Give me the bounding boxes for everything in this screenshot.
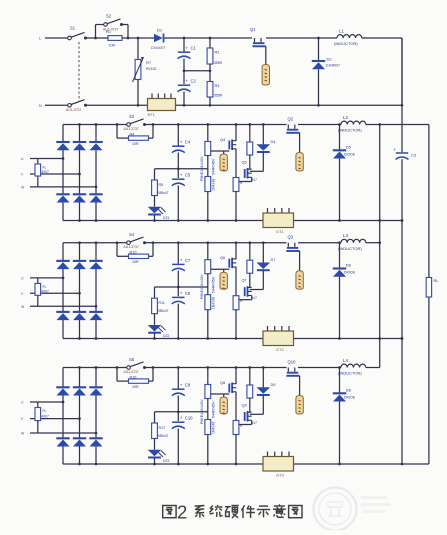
node phase U bbox=[21, 157, 64, 161]
transistor Q9 bbox=[239, 404, 257, 426]
svg-text:Q5: Q5 bbox=[242, 161, 247, 165]
wire diode link bbox=[250, 289, 263, 291]
fuse FQ8 bbox=[220, 394, 227, 414]
capacitor C7 bbox=[172, 241, 191, 296]
svg-text:D8: D8 bbox=[346, 388, 352, 393]
resistor R3 bbox=[207, 82, 223, 107]
wire bridge rail joins bbox=[78, 241, 97, 340]
inductor L4 bbox=[338, 358, 366, 376]
transistor Q10 bbox=[286, 360, 299, 396]
wire bottom rail row1 bbox=[176, 104, 403, 106]
diode D7 mid bbox=[257, 241, 276, 289]
svg-text:P6KE440/440V: P6KE440/440V bbox=[200, 156, 204, 181]
resistor under Q4 bbox=[233, 178, 243, 222]
node L input terminal bbox=[39, 37, 69, 41]
svg-text:FL: FL bbox=[43, 409, 47, 413]
fuse FQ6 bbox=[220, 269, 227, 289]
svg-text:+: + bbox=[186, 78, 189, 83]
svg-text:L2: L2 bbox=[343, 115, 348, 120]
svg-text:GT2: GT2 bbox=[276, 347, 285, 352]
svg-text:10R: 10R bbox=[132, 142, 139, 146]
svg-text:BT1: BT1 bbox=[148, 112, 156, 117]
svg-text:D1N4007: D1N4007 bbox=[151, 46, 165, 50]
diode bridge bottom 1 bbox=[56, 159, 69, 221]
svg-text:RL: RL bbox=[434, 279, 439, 283]
svg-text:S4: S4 bbox=[129, 232, 135, 237]
switch S3 bypass bbox=[116, 114, 155, 131]
svg-text:C7: C7 bbox=[185, 258, 191, 263]
svg-text:10R: 10R bbox=[132, 260, 139, 264]
svg-text:AU1-3737: AU1-3737 bbox=[124, 370, 139, 374]
node phase W bbox=[21, 305, 97, 309]
resistor gate Q5 bbox=[247, 123, 253, 169]
diode DZ2 zener bbox=[148, 325, 170, 340]
switch S2 bypass branch bbox=[96, 14, 129, 39]
capacitor C5 bbox=[172, 167, 191, 221]
resistor gate Q9 bbox=[247, 366, 253, 412]
resistor gate Q7 bbox=[247, 241, 253, 287]
svg-text:2: 2 bbox=[177, 502, 187, 523]
svg-text:D4: D4 bbox=[271, 140, 276, 144]
svg-text:(INDUCTOR): (INDUCTOR) bbox=[338, 246, 362, 251]
svg-text:+: + bbox=[180, 172, 183, 177]
svg-text:555R: 555R bbox=[214, 94, 223, 98]
svg-text:4007: 4007 bbox=[42, 289, 50, 293]
svg-text:C10: C10 bbox=[185, 416, 193, 421]
diode bridge top 3 bbox=[89, 125, 102, 187]
diode D4 mid bbox=[257, 123, 276, 171]
node phase W bbox=[21, 185, 97, 189]
svg-text:4007: 4007 bbox=[42, 415, 50, 419]
svg-text:S3: S3 bbox=[129, 114, 135, 119]
svg-text:555x47: 555x47 bbox=[158, 434, 169, 438]
svg-text:DZ2: DZ2 bbox=[163, 334, 170, 338]
svg-text:Q7: Q7 bbox=[242, 279, 247, 283]
svg-text:555x47: 555x47 bbox=[158, 191, 169, 195]
svg-text:4007: 4007 bbox=[42, 170, 50, 174]
module BT1 bbox=[148, 94, 176, 118]
capacitor C8 bbox=[172, 286, 191, 340]
capacitor C10 bbox=[172, 410, 193, 465]
wire bottom rail S4 bbox=[63, 337, 403, 340]
svg-text:C1: C1 bbox=[191, 46, 197, 51]
diode bridge top 2 bbox=[73, 243, 86, 294]
switch S1 bbox=[68, 26, 96, 40]
diode bridge bottom 3 bbox=[89, 187, 102, 221]
svg-text:C9: C9 bbox=[185, 383, 191, 388]
svg-text:R2: R2 bbox=[215, 51, 220, 55]
fuse FQ10 bbox=[296, 396, 303, 415]
node phase U bbox=[21, 401, 64, 405]
module GT2 bbox=[263, 326, 294, 352]
svg-text:(INDUCTOR): (INDUCTOR) bbox=[334, 41, 358, 46]
svg-text:S5: S5 bbox=[129, 357, 135, 362]
node phase V bbox=[21, 173, 81, 177]
capacitor C4 bbox=[172, 123, 191, 178]
svg-text:P6KE440/440V: P6KE440/440V bbox=[200, 399, 204, 424]
svg-text:R7: R7 bbox=[146, 60, 152, 65]
wire mid links bbox=[155, 168, 208, 170]
text caption 图2 系统硬件示意图 bbox=[163, 502, 302, 523]
diode bridge bottom 2 bbox=[73, 293, 86, 338]
fuse F1 bbox=[262, 65, 269, 86]
svg-text:R17: R17 bbox=[159, 426, 166, 430]
resistor RL load bbox=[426, 278, 438, 298]
svg-text:DZ3: DZ3 bbox=[163, 459, 170, 463]
svg-text:+: + bbox=[186, 45, 189, 50]
wire dashed gang link S1-S5 bbox=[78, 42, 80, 101]
wire rail row3 right bbox=[366, 241, 381, 244]
svg-text:DIODE: DIODE bbox=[344, 271, 356, 275]
svg-text:AU1-3737: AU1-3737 bbox=[124, 245, 139, 249]
svg-text:Q10: Q10 bbox=[288, 360, 297, 365]
transistor Q2 bbox=[286, 117, 299, 153]
svg-text:Q9: Q9 bbox=[242, 404, 247, 408]
inductor FL phase link bbox=[35, 402, 49, 433]
svg-text:544R/45V: 544R/45V bbox=[212, 276, 216, 293]
resistor R2 bbox=[207, 37, 223, 82]
diode DZ3 zener bbox=[148, 450, 170, 466]
capacitor C3 bbox=[394, 147, 417, 464]
svg-text:S1: S1 bbox=[70, 26, 76, 31]
svg-text:10R: 10R bbox=[109, 44, 116, 48]
svg-text:S2: S2 bbox=[106, 14, 112, 19]
wire rail row4 right corner bbox=[366, 339, 380, 368]
diode bridge top 2 bbox=[73, 368, 86, 419]
svg-text:Q8: Q8 bbox=[220, 381, 225, 385]
diode bridge bottom 2 bbox=[73, 174, 86, 221]
inductor FL phase link bbox=[35, 278, 49, 306]
svg-text:D1: D1 bbox=[157, 28, 163, 33]
svg-text:+: + bbox=[180, 258, 183, 263]
transistor Q1 bbox=[250, 27, 266, 65]
wire mid links bbox=[155, 411, 208, 413]
wire cap mid link bbox=[184, 69, 211, 72]
diode bridge top 1 bbox=[56, 243, 69, 278]
transistor Q7 bbox=[239, 279, 257, 301]
wire diode link bbox=[250, 170, 263, 172]
diode D9 mid bbox=[257, 366, 276, 414]
diode D6 freewheel bbox=[333, 241, 356, 340]
svg-text:Q1: Q1 bbox=[250, 27, 256, 32]
capacitor C2 bbox=[178, 69, 197, 106]
resistor R4 bbox=[117, 125, 153, 146]
svg-text:AU1-3737: AU1-3737 bbox=[124, 127, 139, 131]
wire top rail S3 bbox=[63, 124, 341, 126]
svg-text:555x47: 555x47 bbox=[158, 309, 169, 313]
transistor Q6 bbox=[211, 241, 238, 295]
node phase U bbox=[21, 276, 64, 280]
wire bottom rail S5 bbox=[63, 463, 403, 466]
wire top rail row1 bbox=[138, 37, 402, 39]
svg-text:Q6: Q6 bbox=[220, 256, 225, 260]
svg-text:FL: FL bbox=[43, 166, 47, 170]
resistor R11 snubber bbox=[152, 287, 169, 325]
svg-text:GT1: GT1 bbox=[276, 229, 285, 234]
wire bus B x402 upper bbox=[401, 38, 404, 152]
wire bridge rail joins bbox=[78, 123, 97, 222]
svg-text:L: L bbox=[39, 37, 41, 41]
svg-text:D9: D9 bbox=[271, 383, 276, 387]
resistor R17 snubber bbox=[152, 412, 169, 450]
diode D1 bbox=[151, 28, 165, 51]
svg-text:RV120: RV120 bbox=[146, 67, 156, 71]
diode DZ1 zener bbox=[148, 207, 170, 222]
wire bottom rail row4 right bbox=[402, 463, 429, 465]
svg-text:R1: R1 bbox=[106, 29, 112, 34]
svg-text:10R: 10R bbox=[132, 385, 139, 389]
resistor R14 divider bbox=[205, 241, 216, 294]
fuse FQ2 bbox=[296, 153, 303, 172]
diode bridge bottom 3 bbox=[89, 433, 102, 464]
diode bridge top 2 bbox=[73, 125, 86, 175]
svg-text:C3: C3 bbox=[411, 153, 417, 158]
diode bridge top 3 bbox=[89, 243, 102, 307]
diode bridge bottom 1 bbox=[56, 278, 69, 339]
svg-text:D1N4007: D1N4007 bbox=[326, 64, 340, 68]
svg-text:C4: C4 bbox=[185, 140, 191, 145]
svg-text:P6KE440/440V: P6KE440/440V bbox=[200, 274, 204, 299]
capacitor C9 bbox=[172, 366, 191, 421]
svg-text:C8: C8 bbox=[185, 291, 191, 296]
svg-text:+: + bbox=[180, 291, 183, 296]
text vertical value bbox=[200, 399, 204, 424]
varistor R7 bbox=[133, 37, 157, 107]
transistor Q5 bbox=[239, 161, 257, 183]
inductor FL phase link bbox=[35, 159, 49, 187]
svg-text:D6: D6 bbox=[346, 263, 352, 268]
resistor R20 divider bbox=[205, 366, 216, 419]
svg-text:(INDUCTOR): (INDUCTOR) bbox=[338, 371, 362, 376]
diode D2 bbox=[312, 37, 340, 107]
svg-text:+: + bbox=[180, 382, 183, 387]
svg-text:C5: C5 bbox=[185, 173, 191, 178]
svg-text:x17: x17 bbox=[252, 178, 257, 182]
svg-text:L3: L3 bbox=[343, 233, 348, 238]
resistor under Q8 bbox=[233, 421, 243, 466]
svg-text:R3: R3 bbox=[215, 84, 220, 88]
fuse FQ3 bbox=[296, 271, 303, 290]
resistor R8 divider bbox=[205, 123, 216, 176]
svg-text:R11: R11 bbox=[159, 301, 165, 305]
transistor Q3 bbox=[286, 235, 299, 271]
svg-text:D7: D7 bbox=[271, 258, 276, 262]
diode bridge top 1 bbox=[56, 368, 69, 403]
wire rail row2 right bbox=[366, 123, 429, 126]
svg-text:AU1-3737: AU1-3737 bbox=[66, 108, 81, 112]
svg-text:x17: x17 bbox=[252, 421, 257, 425]
diode D5 freewheel bbox=[333, 123, 356, 222]
svg-text:1N4148: 1N4148 bbox=[212, 297, 216, 309]
svg-text:N: N bbox=[39, 104, 42, 108]
diode bridge top 1 bbox=[56, 125, 69, 159]
svg-text:L4: L4 bbox=[343, 358, 348, 363]
resistor R10 bbox=[117, 243, 153, 264]
svg-text:Q4: Q4 bbox=[220, 138, 225, 142]
svg-text:DIODE: DIODE bbox=[344, 396, 356, 400]
wire bottom rail S3 bbox=[63, 219, 403, 222]
wire diode link bbox=[250, 413, 263, 415]
module GT1 bbox=[263, 208, 294, 234]
diode bridge bottom 2 bbox=[73, 419, 86, 464]
svg-text:DZ1: DZ1 bbox=[163, 216, 170, 220]
svg-text:544R/45V: 544R/45V bbox=[212, 158, 216, 175]
svg-text:Q2: Q2 bbox=[288, 117, 294, 122]
diode bridge top 3 bbox=[89, 368, 102, 434]
switch S5 bbox=[66, 100, 148, 112]
svg-text:C2: C2 bbox=[191, 79, 197, 84]
node phase V bbox=[21, 417, 81, 421]
svg-text:+: + bbox=[180, 415, 183, 420]
wire bridge rail joins bbox=[78, 366, 97, 465]
node phase V bbox=[21, 292, 81, 296]
watermark faint text bbox=[361, 496, 391, 513]
svg-text:(INDUCTOR): (INDUCTOR) bbox=[338, 128, 362, 133]
inductor L2 bbox=[338, 115, 366, 133]
wire top rail S5 bbox=[63, 367, 341, 369]
resistor under Q6 bbox=[233, 296, 243, 340]
resistor R1 bbox=[94, 29, 138, 48]
svg-text:544R/45V: 544R/45V bbox=[212, 401, 216, 418]
inductor L1 bbox=[334, 29, 362, 47]
diode D8 freewheel bbox=[333, 366, 356, 465]
svg-text:+: + bbox=[180, 139, 183, 144]
resistor R16 bbox=[117, 368, 153, 389]
svg-text:1N4148: 1N4148 bbox=[212, 422, 216, 434]
svg-text:1N4148: 1N4148 bbox=[212, 179, 216, 191]
transistor Q4 bbox=[211, 123, 238, 177]
diode bridge bottom 1 bbox=[56, 402, 69, 464]
svg-text:D2: D2 bbox=[327, 57, 333, 62]
svg-text:+: + bbox=[394, 147, 397, 152]
switch S4 bypass bbox=[116, 232, 155, 249]
svg-text:Q3: Q3 bbox=[288, 235, 294, 240]
fuse FQ4 bbox=[220, 151, 227, 171]
wire mid links bbox=[155, 286, 208, 288]
svg-text:GT3: GT3 bbox=[276, 473, 285, 478]
svg-text:555R: 555R bbox=[214, 61, 223, 65]
svg-text:x17: x17 bbox=[252, 296, 257, 300]
wire right edge row1 bbox=[401, 38, 403, 105]
inductor L3 bbox=[338, 233, 366, 251]
transistor Q8 bbox=[211, 366, 238, 420]
watermark circle logo bbox=[314, 488, 357, 531]
capacitor C1 bbox=[178, 37, 197, 84]
resistor R5 snubber bbox=[152, 169, 169, 207]
wire bus A x379 bbox=[378, 125, 381, 340]
switch S5 bypass bbox=[116, 357, 155, 374]
text vertical value bbox=[200, 156, 204, 181]
node N input terminal bbox=[39, 104, 69, 108]
svg-text:L1: L1 bbox=[339, 29, 344, 34]
svg-text:DIODE: DIODE bbox=[344, 153, 356, 157]
wire top rail S4 bbox=[63, 242, 341, 244]
node phase W bbox=[21, 432, 97, 436]
svg-text:D5: D5 bbox=[346, 145, 352, 150]
wire bus C x428 bbox=[428, 125, 430, 465]
text vertical value bbox=[200, 274, 204, 299]
svg-text:R5: R5 bbox=[159, 183, 164, 187]
module GT3 bbox=[263, 452, 294, 478]
diode bridge bottom 3 bbox=[89, 306, 102, 338]
svg-text:FL: FL bbox=[43, 285, 47, 289]
